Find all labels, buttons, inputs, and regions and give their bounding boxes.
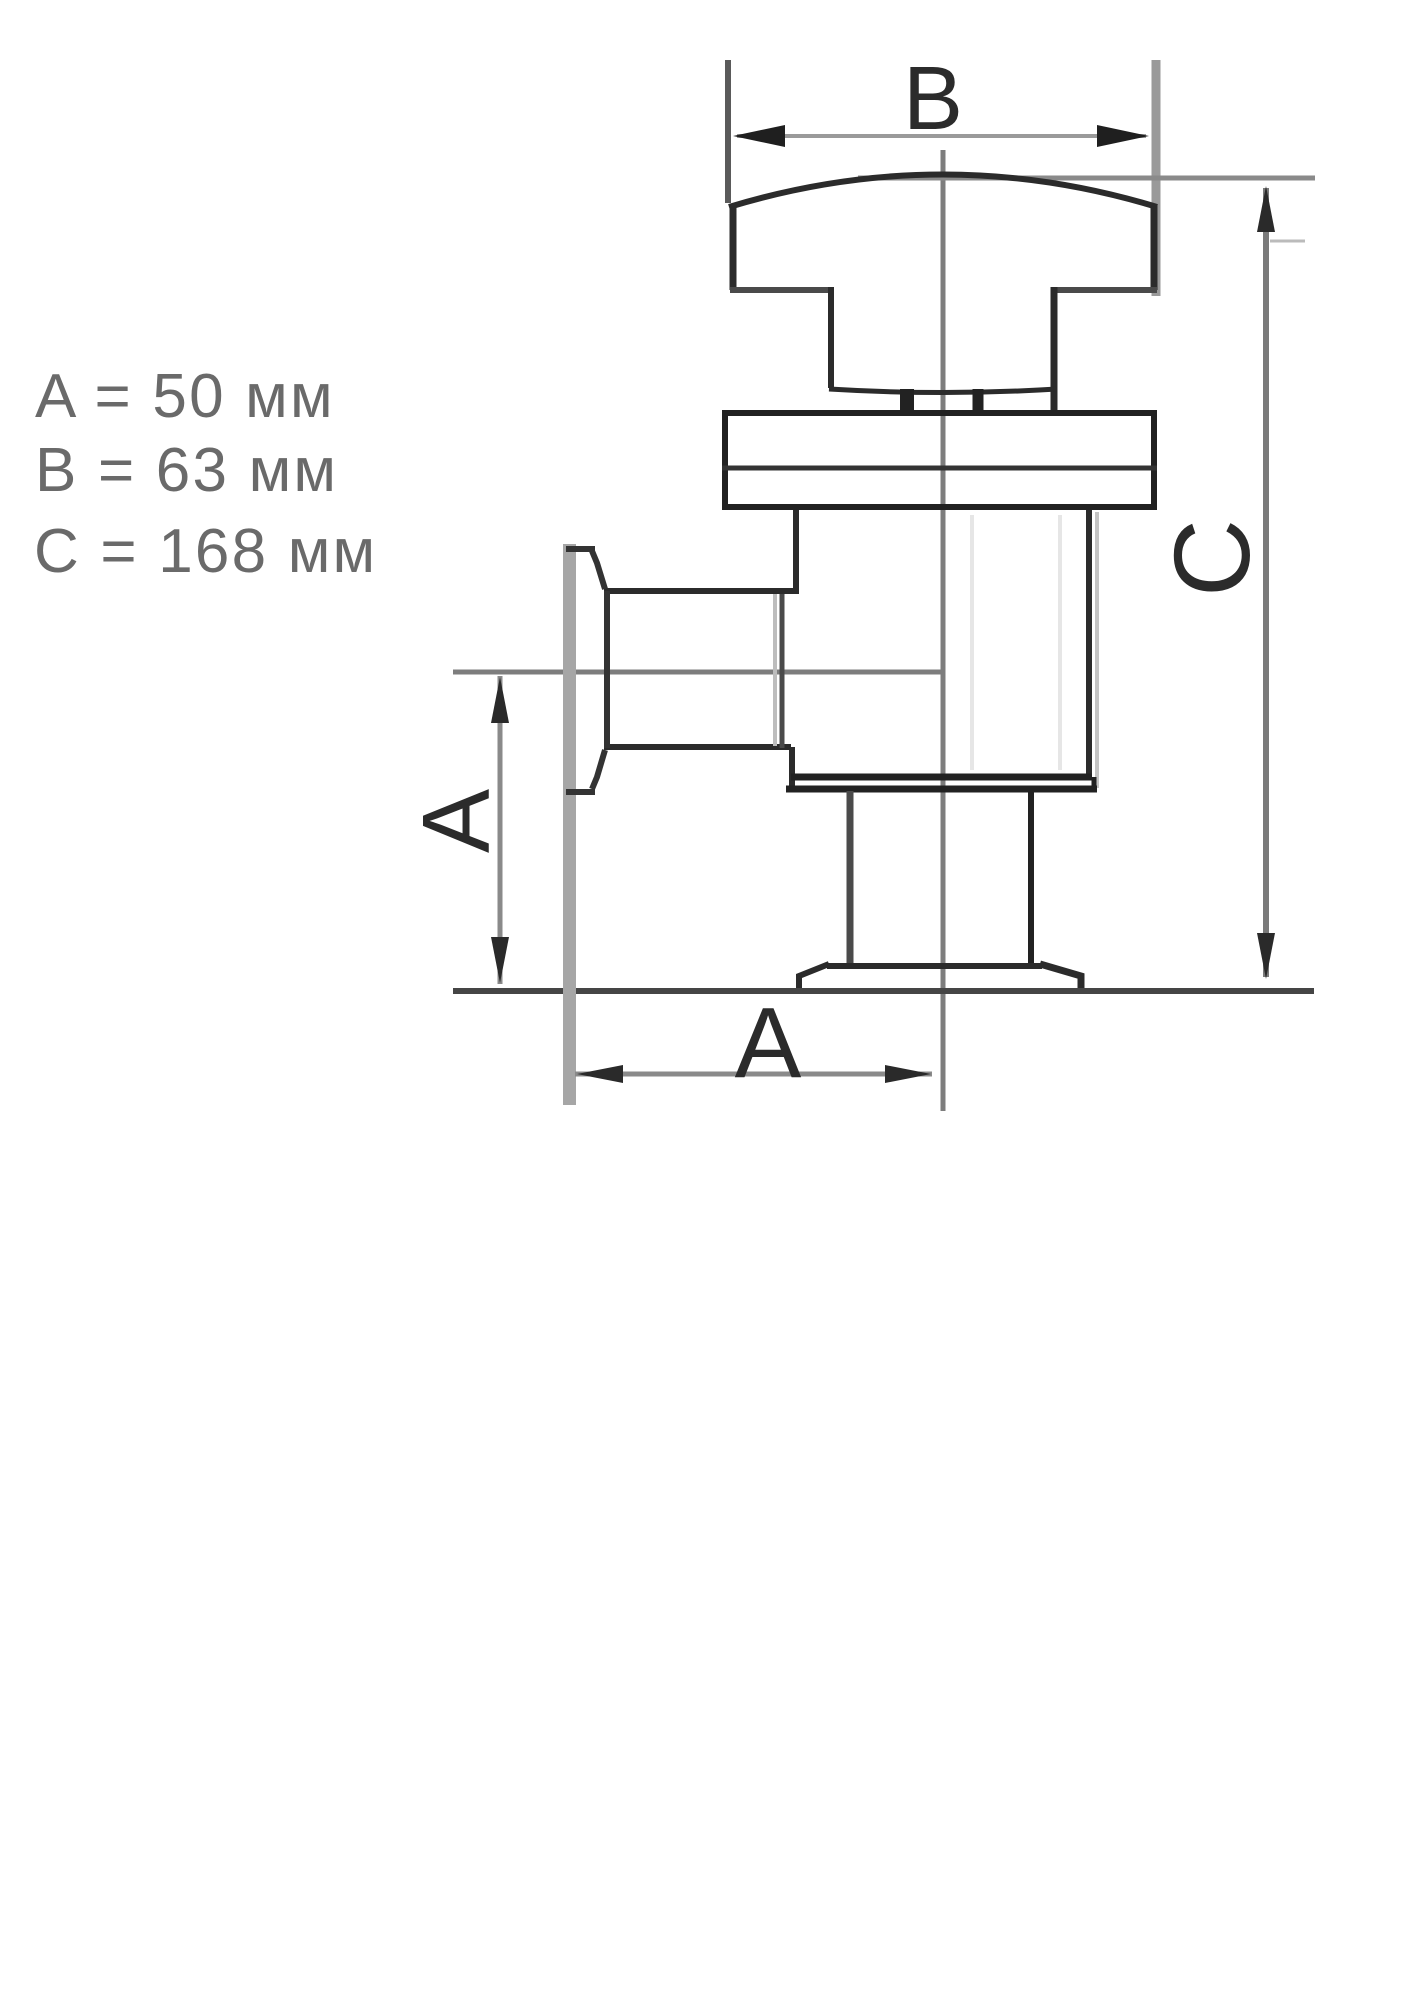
dimension B arrow left bbox=[733, 125, 785, 147]
svg-text:A: A bbox=[735, 987, 802, 1099]
bottom neck left side bbox=[847, 791, 854, 965]
dimension C top arrow bbox=[1257, 186, 1275, 232]
left flange tube end cap bbox=[604, 591, 610, 748]
dimension B arrow right bbox=[1097, 125, 1149, 147]
dimension B extension line right bbox=[1152, 60, 1161, 296]
dimension C arrow base tick bbox=[1270, 240, 1305, 243]
dimension A bottom left arrow bbox=[577, 1065, 623, 1083]
dimension C line bbox=[1263, 188, 1269, 977]
handwheel underside right bbox=[1053, 287, 1157, 293]
bottom flange right chamfer bbox=[1040, 964, 1081, 991]
body bottom lip bbox=[786, 786, 1097, 793]
horizontal centerline of side port bbox=[453, 670, 945, 675]
body interior hidden line right bbox=[1058, 515, 1062, 770]
stem boss left bbox=[900, 389, 914, 412]
stem boss right bbox=[973, 389, 984, 412]
svg-text:A: A bbox=[403, 789, 510, 853]
left flange bottom edge bbox=[566, 789, 595, 795]
dimension A left line bbox=[498, 676, 503, 984]
side port interior end wall shadow bbox=[773, 594, 777, 746]
ground baseline bbox=[453, 988, 1314, 994]
svg-text:A = 50 мм: A = 50 мм bbox=[35, 362, 335, 431]
dimension C top extension line bbox=[858, 176, 1315, 181]
vertical centerline of valve bbox=[941, 150, 946, 1111]
handwheel underside left bbox=[730, 287, 831, 293]
body bottom lip right end bbox=[1092, 777, 1097, 792]
svg-text:B: B bbox=[903, 49, 963, 149]
handwheel knob right side bbox=[1151, 205, 1158, 290]
dimension B line bbox=[737, 134, 1146, 138]
handwheel knob left side bbox=[730, 205, 737, 290]
body lower-left corner post bbox=[789, 747, 795, 791]
side port tube top edge bbox=[604, 588, 799, 594]
bottom flange left chamfer bbox=[799, 964, 829, 991]
dimension B extension line left bbox=[725, 60, 731, 203]
bonnet divider line bbox=[722, 466, 1157, 471]
dimension A bottom line bbox=[575, 1072, 932, 1077]
left flange extension line lower bbox=[564, 795, 575, 1105]
bottom flange top edge bbox=[827, 963, 1042, 969]
body left wall upper bbox=[793, 510, 799, 591]
svg-text:C: C bbox=[1151, 519, 1272, 597]
dimension A left top arrow bbox=[491, 677, 509, 723]
body interior hidden line left bbox=[970, 515, 974, 770]
bottom neck right side bbox=[1028, 791, 1034, 965]
svg-text:C = 168 мм: C = 168 мм bbox=[34, 517, 377, 586]
dimension A left bottom arrow bbox=[491, 937, 509, 983]
side port tube bottom edge bbox=[604, 744, 791, 750]
left flange top edge bbox=[566, 546, 595, 552]
dimension A bottom right arrow bbox=[885, 1065, 931, 1083]
body right wall shadow bbox=[1095, 512, 1099, 788]
bonnet flange rectangle bbox=[725, 413, 1154, 507]
side port interior end wall bbox=[780, 594, 785, 748]
left flange bottom chamfer bbox=[592, 750, 605, 789]
handwheel stem left side bbox=[828, 287, 834, 388]
dimension C bottom arrow bbox=[1257, 933, 1275, 979]
svg-text:B = 63 мм: B = 63 мм bbox=[35, 436, 338, 505]
body bottom edge bbox=[791, 774, 1092, 781]
left flange face band bbox=[563, 544, 576, 1105]
body right wall bbox=[1086, 510, 1092, 779]
left flange top chamfer bbox=[592, 551, 605, 589]
handwheel stem right side bbox=[1051, 287, 1058, 411]
handwheel knob top curve bbox=[729, 175, 1157, 208]
handwheel stem bottom arc bbox=[829, 389, 1057, 393]
